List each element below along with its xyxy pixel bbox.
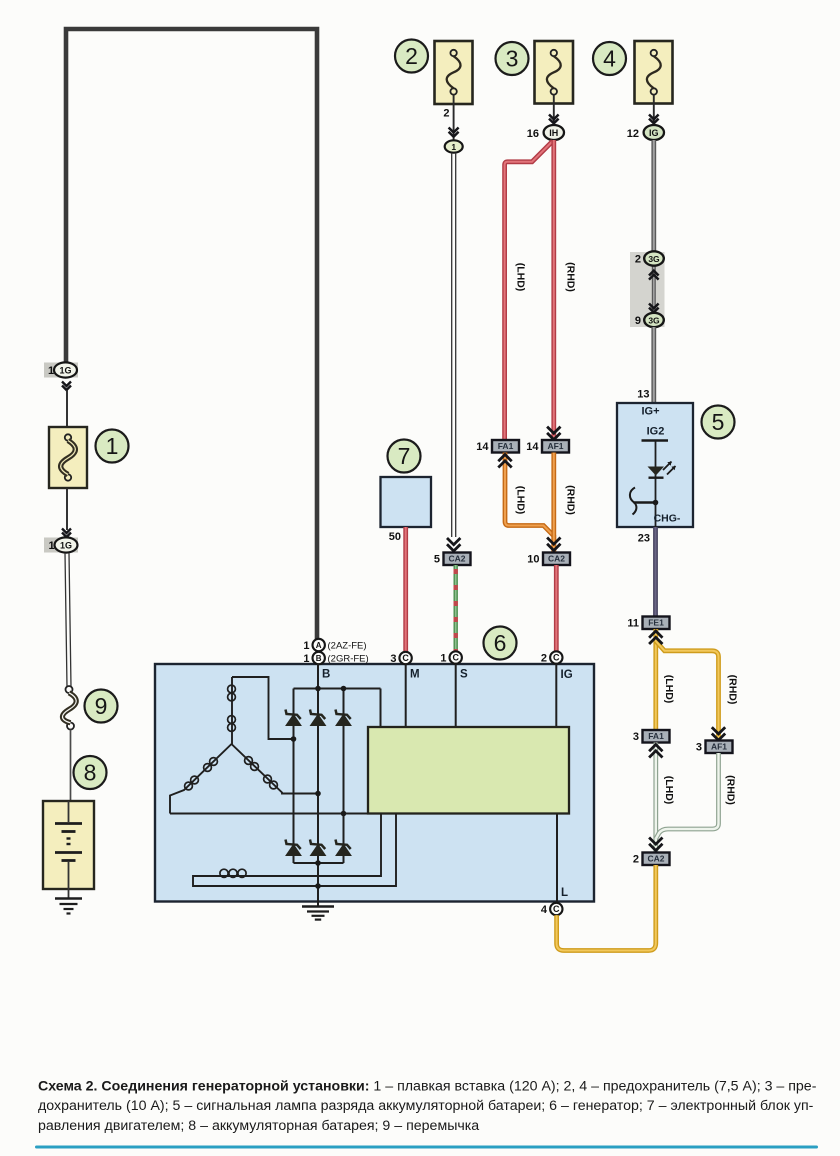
svg-text:14: 14 [526,441,539,453]
svg-text:B: B [316,654,322,663]
svg-text:Схема 2. Соединения генераторн: Схема 2. Соединения генераторной установ… [38,1079,817,1095]
wire: battery feed thick black loop (battery to generator B) [66,29,317,640]
label circle 8 [74,756,107,789]
connector 11 FE1 [627,617,669,630]
svg-text:3: 3 [506,46,519,72]
svg-text:11: 11 [627,618,639,630]
arrow above connector 1 [449,128,459,137]
svg-text:(2GR-FE): (2GR-FE) [328,654,369,665]
connector 1 (fuse 2 output) [445,140,463,152]
svg-text:9: 9 [635,315,641,327]
arrow below 14 FA1 [498,455,511,468]
connector 14 AF1 [526,440,569,453]
svg-text:равления двигателем; 8 – аккум: равления двигателем; 8 – аккумуляторная … [38,1118,479,1134]
svg-text:FA1: FA1 [648,731,664,741]
connector 5 CA2 [434,553,471,566]
label (RHD) orange [565,485,577,515]
charge warning lamp unit 5 [617,403,693,527]
svg-text:12: 12 [627,128,639,140]
svg-text:(LHD): (LHD) [663,675,675,704]
svg-text:CA2: CA2 [448,554,465,564]
diode D4 lower (zener) [286,840,302,856]
svg-text:IG: IG [561,669,573,681]
pin 2 C (terminal IG) [541,651,563,664]
svg-text:4: 4 [541,904,548,916]
svg-text:1: 1 [451,142,456,152]
svg-text:2: 2 [405,43,418,69]
arrow above 2 CA2 (down) [649,838,662,851]
svg-text:S: S [460,669,468,681]
svg-text:CA2: CA2 [647,854,664,864]
arrow below connector 1G upper [62,382,71,391]
arrow above 3 AF1 (down) [712,727,725,740]
arrow above 14 AF1 [547,427,560,440]
label circle 5 [702,406,735,439]
svg-text:3G: 3G [648,316,660,326]
arrow below 3 FA1 (up) [649,745,662,758]
svg-text:1G: 1G [60,540,72,550]
svg-text:3: 3 [696,742,702,754]
svg-text:3: 3 [390,653,396,665]
ground (battery) [55,899,82,914]
svg-text:IH: IH [549,128,558,138]
wire grey IG connector to junction block [651,140,656,253]
arrow above 9 3G (down) [649,304,659,313]
svg-text:(LHD): (LHD) [663,776,675,805]
stator winding left phase [170,744,232,814]
svg-text:(RHD): (RHD) [725,775,737,805]
wire rectifier column 1 [293,689,295,864]
wire fuse 3 to connector IH [553,104,555,127]
lamp LED symbol [648,462,676,478]
svg-text:AF1: AF1 [711,742,727,752]
jumper 9 [62,686,76,730]
diode D6 lower (zener) [336,840,352,856]
svg-text:5: 5 [712,409,725,435]
regulator (green box) [368,727,569,814]
svg-text:(LHD): (LHD) [515,486,527,515]
rotor field winding [193,814,396,887]
svg-text:M: M [410,669,420,681]
wire grey junction block to lamp unit [651,327,656,403]
wire fuse 2 to connector 1 [453,104,455,141]
diode D3 upper (zener) [336,710,352,726]
svg-text:(RHD): (RHD) [727,675,739,705]
wire B terminal column [317,664,319,902]
pin 1 C (terminal S) [440,651,462,664]
svg-text:6: 6 [494,630,507,656]
svg-text:дохранитель (10 А); 5 – сигнал: дохранитель (10 А); 5 – сигнальная лампа… [38,1098,814,1114]
diode D1 upper (zener) [286,710,302,726]
svg-text:1: 1 [106,433,119,459]
svg-text:2: 2 [443,108,449,120]
wire pale green AF1 to CA2 (RHD) [656,753,719,839]
svg-text:1: 1 [48,540,54,552]
arrow above connector IH [549,115,559,124]
svg-text:(RHD): (RHD) [565,262,577,292]
svg-text:13: 13 [637,389,649,401]
svg-text:FA1: FA1 [498,441,514,451]
diode D2 upper (zener) [310,710,326,726]
svg-text:IG: IG [649,128,659,138]
svg-text:7: 7 [398,443,411,469]
caption text [38,1079,817,1134]
label (LHD) yellow [663,675,675,704]
svg-text:IG2: IG2 [647,426,665,438]
wire red IH to AF1 (RHD) [551,140,556,440]
svg-text:10: 10 [527,554,539,566]
wire (double line) 1G lower to jumper 9 [65,553,71,687]
label circle 7 [388,440,421,473]
wire L terminal to regulator [556,814,558,902]
svg-text:4: 4 [603,46,616,72]
svg-text:CHG-: CHG- [654,513,681,525]
svg-text:FE1: FE1 [648,618,664,628]
svg-text:16: 16 [527,128,539,140]
svg-text:1: 1 [48,365,54,377]
battery 8 [43,801,94,898]
svg-text:8: 8 [84,760,97,786]
pin 4 C (terminal L) [541,903,563,916]
label circle 4 [593,42,626,75]
ECU 7 (engine control unit) [381,477,432,527]
svg-text:C: C [452,653,459,663]
wire S terminal to regulator [455,664,457,728]
svg-text:1: 1 [440,652,446,664]
junction block (grey) [630,252,665,327]
wire IG terminal to regulator [555,664,557,728]
stator winding right phase [232,744,319,794]
label circle 2 [395,40,428,73]
fuse 3 (10 A) [535,41,574,104]
fuse 4 (7.5 A) [635,41,673,104]
svg-text:2: 2 [633,854,639,866]
wire red ECU to generator M [403,527,408,651]
stator winding top phase [228,677,294,744]
svg-text:3G: 3G [648,254,660,264]
label circle 1 [96,430,129,463]
label circle 3 [496,42,529,75]
wire orange AF1 to CA2 (RHD) [551,453,556,553]
terminal label L [561,887,568,899]
label CHG- [654,513,681,525]
footer rule (teal) [35,1146,818,1149]
svg-text:CA2: CA2 [548,554,565,564]
pin label 2 [443,108,449,120]
label (RHD) yellow [727,675,739,705]
svg-text:23: 23 [638,533,650,545]
label (LHD) pale green [663,776,675,805]
terminal label B [322,669,330,681]
label (RHD) pale green [725,775,737,805]
pin 3 C (terminal M) [390,652,411,665]
connector 10 CA2 [527,553,570,566]
wire yellow FE1 to AF1 (RHD) [656,641,719,741]
svg-text:IG+: IG+ [641,406,659,418]
svg-text:(RHD): (RHD) [565,485,577,515]
wire grey inside junction block [652,266,656,314]
svg-text:C: C [553,653,560,663]
connector 1 1G (upper) [44,362,78,377]
svg-text:5: 5 [434,554,440,566]
connector 16 IH [527,125,564,140]
pin circle B (2GR-FE) [303,652,368,665]
wire pale green FA1 to CA2 (LHD) [653,743,658,853]
pin label 23 [638,533,650,545]
wire yellow FE1 to FA1 (LHD) [653,629,658,730]
wire stator left to regulator rail [170,813,368,815]
arrow above connector 1G lower [62,529,71,538]
arrow above 10 CA2 [547,538,560,551]
generator 6 body [155,664,594,902]
connector 2 CA2 [633,853,670,866]
connector 12 IG [627,125,664,140]
diode D5 lower (zener) [310,840,326,856]
arrow above connector IG [649,115,659,124]
svg-text:2: 2 [635,254,641,266]
label (RHD) red [565,262,577,292]
wire violet lamp to FE1 [653,527,658,617]
connector 14 FA1 [476,440,519,453]
connector 3 FA1 [633,730,670,743]
svg-text:C: C [553,904,560,914]
wire rectifier top rail [294,689,381,728]
label (LHD) red [515,263,527,292]
lamp switch symbol [630,488,658,528]
svg-text:B: B [322,669,330,681]
wire fuse 4 to connector IG [653,104,655,127]
pin label 13 [637,389,649,401]
terminal label IG [561,669,573,681]
label circle 6 [484,627,517,660]
svg-text:C: C [402,653,409,663]
wire M terminal to regulator [405,664,407,727]
connector 9 3G [635,313,664,327]
svg-text:1G: 1G [59,365,71,375]
svg-text:3: 3 [633,731,639,743]
svg-text:2: 2 [541,652,547,664]
ground (generator) [302,902,334,920]
arrow above 5 CA2 [447,538,460,551]
connector 2 3G [635,251,664,265]
wire yellow CA2 to generator L [557,865,656,951]
svg-text:AF1: AF1 [547,441,563,451]
svg-text:50: 50 [389,531,401,543]
wire red CA2 to generator IG [554,565,559,651]
label (LHD) orange [515,486,527,515]
svg-text:9: 9 [95,693,108,719]
terminal label M [410,669,420,681]
pin label 50 [389,531,401,543]
wire fusible link to 1G lower [66,488,68,530]
wire red IH to FA1 (LHD) [505,141,553,440]
wire jumper to battery [70,730,72,802]
wire rectifier bottom rail [294,862,344,864]
wire 1G to fusible link 1 [66,390,68,427]
svg-text:1: 1 [303,653,309,665]
svg-text:14: 14 [476,441,489,453]
terminal label S [460,669,468,681]
svg-text:1: 1 [303,640,309,652]
connector 1 1G (lower) [44,537,78,552]
arrow below 11 FE1 (up) [649,631,662,644]
label circle 9 [85,690,118,723]
connector 3 AF1 [696,741,733,754]
svg-text:L: L [561,887,568,899]
wire (double line) connector 1 to 5 CA2 [452,153,456,537]
svg-text:(LHD): (LHD) [515,263,527,292]
wire green/red dashed CA2 to generator S [454,565,458,651]
fuse 2 (7.5 A) [435,41,473,104]
pin circle A (2AZ-FE) [303,639,366,652]
wire rectifier column 3 [343,689,345,864]
wire orange FA1 to CA2 (LHD) [505,453,554,553]
svg-text:(2AZ-FE): (2AZ-FE) [328,641,367,652]
arrow below 2 3G (up) [649,271,659,280]
svg-text:A: A [316,641,322,650]
fusible link 1 (120 A) [49,427,87,488]
junction dots rectifier [291,686,347,889]
